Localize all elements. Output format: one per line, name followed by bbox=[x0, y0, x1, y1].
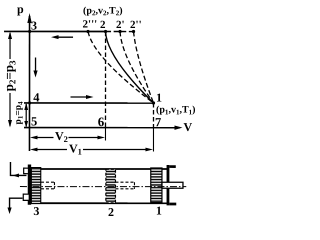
piston rod bbox=[162, 182, 183, 188]
dimension line p1=p4 bbox=[24, 103, 28, 128]
svg-text:7: 7 bbox=[155, 115, 161, 129]
curve 1 to 2''' dashed bbox=[88, 31, 154, 103]
dimension line V1 bbox=[30, 148, 153, 152]
end flange tab bottom bbox=[169, 203, 176, 206]
node 1 bbox=[152, 101, 155, 104]
wire p2 line solid 3-2 bbox=[4, 30, 106, 32]
cylinder top wall bbox=[30, 168, 167, 170]
svg-text:2: 2 bbox=[108, 205, 114, 219]
svg-text:2'': 2'' bbox=[130, 19, 142, 31]
svg-text:5: 5 bbox=[31, 114, 37, 128]
dimension line V2 bbox=[30, 136, 105, 140]
node 2''' bbox=[86, 30, 89, 33]
svg-text:V: V bbox=[183, 120, 192, 134]
curve 1 to 2' dashed bbox=[120, 32, 154, 104]
svg-text:3: 3 bbox=[33, 204, 39, 218]
wire p1 line 4-1 bbox=[24, 102, 153, 104]
piston position 1 bbox=[151, 168, 162, 203]
arrow suction 4 to 1 bbox=[71, 95, 94, 99]
piston rod ghost position 3 dashed bbox=[41, 182, 55, 189]
p axis bbox=[27, 13, 31, 151]
svg-text:1: 1 bbox=[156, 204, 162, 218]
valve port top bbox=[24, 168, 29, 174]
node 3 bbox=[28, 30, 31, 33]
wire dashed vertical 2 to 6 bbox=[104, 32, 106, 128]
svg-text:2': 2' bbox=[116, 19, 125, 31]
piston rod ghost position 2 dashed bbox=[115, 182, 134, 189]
node 2' bbox=[118, 30, 121, 33]
svg-text:2''': 2''' bbox=[83, 18, 98, 30]
valve port bottom bbox=[23, 194, 29, 200]
pipe discharge top left bbox=[10, 162, 26, 177]
piston ghost position 2 dashed bbox=[106, 169, 116, 203]
centerline dash-dot bbox=[20, 186, 186, 188]
svg-text:p: p bbox=[17, 2, 24, 16]
curve 1 to 2'' dashed bbox=[134, 32, 154, 104]
svg-text:1: 1 bbox=[156, 91, 162, 105]
cylinder end plate right bbox=[167, 165, 170, 205]
arrow expansion 3 to 4 bbox=[33, 57, 37, 77]
V axis bbox=[24, 125, 183, 129]
dimension line p2=p3 bbox=[8, 31, 12, 127]
node 4 bbox=[28, 102, 31, 105]
node 2'' bbox=[132, 30, 135, 33]
svg-text:2: 2 bbox=[100, 19, 106, 31]
end flange tab top bbox=[169, 165, 175, 168]
svg-text:4: 4 bbox=[33, 90, 40, 104]
cylinder head plate bbox=[28, 164, 31, 204]
arrow discharge 2 to 3 bbox=[51, 35, 73, 39]
wire dashed vertical 1 to 7 bbox=[152, 103, 154, 128]
wire extension below 7 bbox=[152, 128, 154, 152]
cylinder bottom wall bbox=[30, 202, 167, 204]
piston ghost position 3 bbox=[31, 168, 40, 204]
svg-text:6: 6 bbox=[98, 114, 105, 129]
pipe suction bottom left bbox=[7, 198, 22, 214]
curve compression 1 to 2 solid bbox=[106, 32, 154, 104]
svg-text:3: 3 bbox=[31, 18, 37, 32]
node 2 bbox=[104, 30, 107, 33]
wire p2 line dashed extension to 2'' bbox=[106, 31, 134, 33]
wire extension below 6 bbox=[104, 128, 106, 141]
